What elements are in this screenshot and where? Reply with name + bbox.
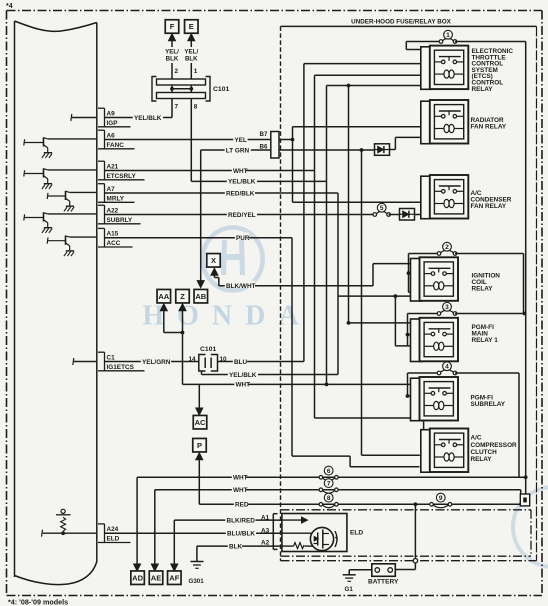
svg-text:YEL/BLK: YEL/BLK: [134, 115, 162, 122]
svg-text:E: E: [189, 22, 194, 31]
svg-text:AE: AE: [151, 573, 161, 582]
svg-text:2: 2: [445, 244, 449, 251]
svg-text:AB: AB: [195, 292, 206, 301]
svg-text:RED: RED: [235, 502, 249, 509]
svg-text:WHT: WHT: [236, 382, 251, 389]
svg-text:IGP: IGP: [107, 120, 119, 127]
svg-text:*4: *4: [6, 3, 13, 10]
svg-text:BLK/RED: BLK/RED: [227, 517, 256, 524]
svg-text:*4: '08-'09 models: *4: '08-'09 models: [8, 598, 68, 606]
svg-text:14: 14: [189, 356, 197, 363]
svg-text:YEL/: YEL/: [184, 49, 198, 56]
svg-text:A15: A15: [107, 231, 119, 238]
svg-text:WHT: WHT: [233, 475, 248, 482]
svg-text:PUR: PUR: [236, 235, 250, 242]
svg-text:RELAY: RELAY: [472, 86, 494, 93]
svg-text:BATTERY: BATTERY: [368, 579, 399, 586]
svg-text:AC: AC: [195, 418, 206, 427]
svg-text:YEL/BLK: YEL/BLK: [229, 372, 257, 379]
svg-text:4: 4: [445, 364, 449, 371]
svg-text:BLK: BLK: [229, 543, 243, 550]
svg-text:7: 7: [327, 481, 331, 488]
svg-text:RELAY 1: RELAY 1: [472, 337, 499, 344]
svg-text:F: F: [170, 22, 175, 31]
svg-text:G1: G1: [345, 586, 354, 593]
svg-text:A21: A21: [107, 163, 119, 170]
svg-text:B7: B7: [260, 131, 268, 138]
svg-text:C101: C101: [200, 346, 216, 353]
svg-text:BLU/BLK: BLU/BLK: [227, 531, 255, 538]
svg-text:A/C: A/C: [471, 435, 482, 442]
svg-text:Z: Z: [180, 292, 185, 301]
svg-text:RELAY: RELAY: [471, 456, 493, 463]
svg-text:UNDER-HOOD FUSE/RELAY BOX: UNDER-HOOD FUSE/RELAY BOX: [351, 19, 452, 26]
svg-text:X: X: [211, 256, 216, 265]
svg-text:A9: A9: [107, 110, 116, 117]
svg-text:AD: AD: [132, 573, 143, 582]
svg-text:YEL/: YEL/: [165, 49, 179, 56]
svg-text:RELAY: RELAY: [472, 286, 494, 293]
svg-text:SUBRELAY: SUBRELAY: [471, 401, 506, 408]
svg-text:P: P: [197, 441, 202, 450]
svg-text:RED/BLK: RED/BLK: [226, 190, 255, 197]
svg-text:AA: AA: [158, 292, 169, 301]
svg-text:BLK: BLK: [166, 56, 179, 63]
svg-text:8: 8: [194, 104, 198, 111]
svg-text:ACC: ACC: [107, 240, 121, 247]
svg-text:YEL/BLK: YEL/BLK: [228, 179, 256, 186]
svg-text:BLK: BLK: [185, 56, 198, 63]
svg-text:G301: G301: [189, 578, 205, 585]
svg-text:1: 1: [446, 32, 450, 39]
svg-text:LT GRN: LT GRN: [226, 147, 250, 154]
svg-text:8: 8: [327, 495, 331, 502]
svg-text:IG1ETCS: IG1ETCS: [107, 364, 135, 371]
svg-text:A22: A22: [107, 207, 119, 214]
svg-text:C1: C1: [107, 354, 116, 361]
svg-text:A24: A24: [107, 526, 119, 533]
svg-text:MRLY: MRLY: [107, 195, 125, 202]
svg-text:ELD: ELD: [107, 536, 120, 543]
svg-text:YEL: YEL: [235, 137, 248, 144]
svg-text:BLK/WHT: BLK/WHT: [226, 283, 256, 290]
svg-text:COMPRESSOR: COMPRESSOR: [471, 442, 518, 449]
svg-text:1: 1: [194, 68, 198, 75]
svg-text:AF: AF: [169, 573, 179, 582]
svg-text:C101: C101: [213, 86, 229, 93]
svg-text:9: 9: [439, 495, 443, 502]
svg-text:7: 7: [175, 104, 179, 111]
svg-text:YEL/GRN: YEL/GRN: [142, 359, 171, 366]
svg-text:HONDA: HONDA: [142, 301, 311, 332]
svg-text:WHT: WHT: [233, 168, 248, 175]
svg-text:A2: A2: [261, 539, 270, 546]
svg-text:A6: A6: [107, 132, 116, 139]
svg-text:3: 3: [445, 304, 449, 311]
svg-text:A1: A1: [261, 514, 270, 521]
svg-text:FAN RELAY: FAN RELAY: [471, 203, 507, 210]
svg-text:5: 5: [380, 205, 384, 212]
svg-text:A3: A3: [261, 527, 270, 534]
svg-text:2: 2: [175, 68, 179, 75]
svg-text:FAN RELAY: FAN RELAY: [471, 123, 507, 130]
svg-text:6: 6: [327, 468, 331, 475]
svg-text:WHT: WHT: [233, 487, 248, 494]
svg-text:ELD: ELD: [350, 530, 363, 537]
svg-text:SUBRLY: SUBRLY: [107, 217, 133, 224]
svg-text:RED/YEL: RED/YEL: [228, 212, 256, 219]
svg-text:BLU: BLU: [234, 359, 248, 366]
svg-text:A7: A7: [107, 186, 116, 193]
svg-text:FANC: FANC: [107, 142, 125, 149]
svg-text:CLUTCH: CLUTCH: [471, 449, 498, 456]
svg-text:ETCSRLY: ETCSRLY: [107, 173, 137, 180]
